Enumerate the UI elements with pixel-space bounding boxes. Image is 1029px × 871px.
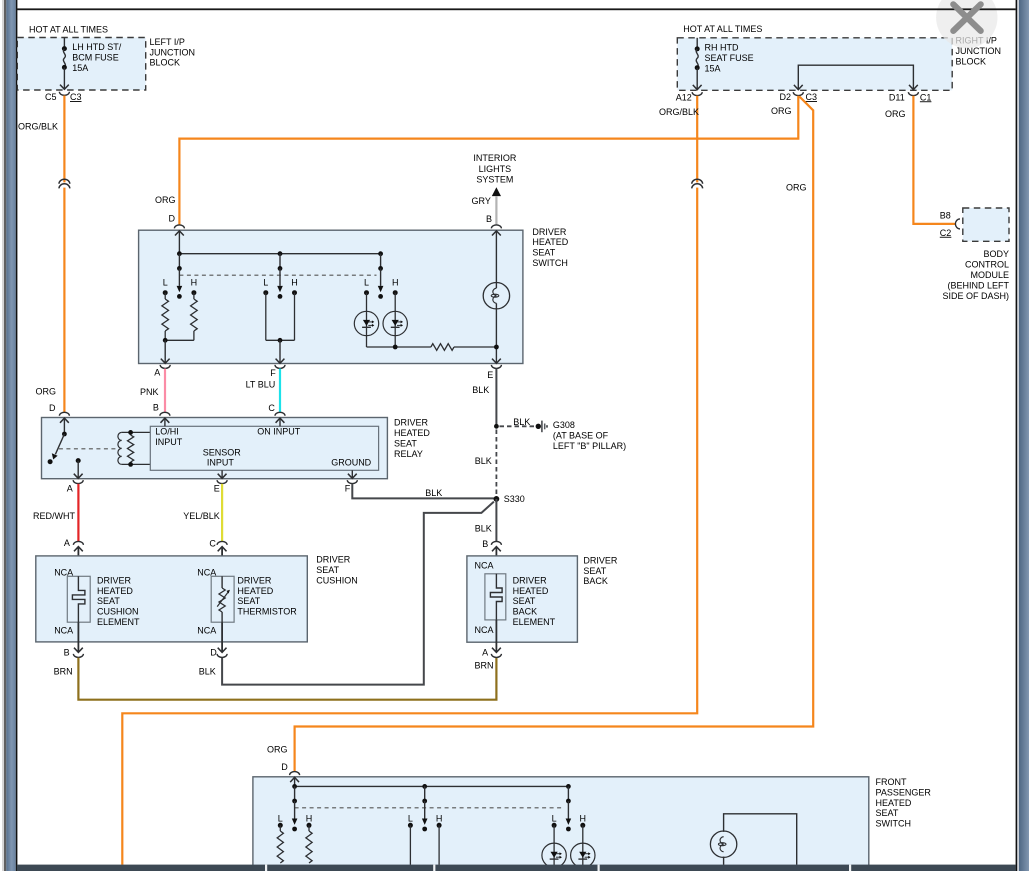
right window frame bar (1016, 0, 1029, 871)
relay switch contact arm (48, 418, 69, 464)
svg-text:ORG: ORG (155, 195, 176, 205)
wire LED outputs to resistor and lamp leg (367, 336, 431, 350)
LED L (passenger switch) (542, 843, 566, 867)
svg-text:C2: C2 (940, 228, 952, 238)
svg-text:B: B (153, 403, 159, 413)
wire ORG from C3 to front passenger switch D (267, 97, 813, 772)
driver switch section 2 (ON) (263, 268, 297, 363)
driver heated seat switch (box) (139, 230, 523, 363)
svg-text:FRONT: FRONT (876, 777, 907, 787)
svg-text:15A: 15A (72, 63, 88, 73)
fuse RH HTD SEAT FUSE 15A (693, 38, 754, 90)
connector B (seat cushion element) (64, 622, 84, 657)
connector B (seat back element) (482, 539, 501, 574)
svg-text:INPUT: INPUT (207, 458, 235, 468)
wire ORG/BLK from C5/C3 down to relay D (18, 96, 70, 413)
connector D (thermistor) (199, 622, 227, 676)
svg-text:ORG: ORG (771, 106, 792, 116)
svg-text:H: H (392, 278, 399, 288)
switch mechanical link (dashed) (179, 274, 376, 276)
connector A (seat back element) (482, 620, 501, 658)
svg-text:H: H (306, 813, 313, 823)
wire BLK S330 down to driver seat back B (475, 499, 497, 541)
svg-text:HEATED: HEATED (532, 237, 568, 247)
svg-text:D: D (49, 403, 56, 413)
svg-text:ORG: ORG (36, 386, 57, 396)
passenger switch section 2 (408, 801, 442, 865)
svg-text:HOT AT ALL TIMES: HOT AT ALL TIMES (29, 25, 108, 35)
svg-text:PNK: PNK (140, 387, 159, 397)
svg-text:H: H (580, 813, 587, 823)
ground G308 (536, 420, 627, 451)
svg-text:SEAT: SEAT (876, 808, 899, 818)
right I/P junction block (dashed box) (677, 38, 952, 91)
svg-text:ON INPUT: ON INPUT (257, 427, 301, 437)
relay coil with parallel resistor (118, 430, 150, 467)
svg-text:A: A (67, 484, 73, 494)
svg-text:G308: G308 (553, 420, 575, 430)
wire LT BLU driver switch F to relay C (246, 369, 280, 412)
svg-text:LT BLU: LT BLU (246, 380, 276, 390)
svg-text:LIGHTS: LIGHTS (479, 164, 512, 174)
svg-text:SEAT: SEAT (513, 596, 536, 606)
driver heated seat thermistor (211, 575, 297, 622)
svg-text:15A: 15A (705, 63, 721, 73)
wire ORG/BLK from A12 down-left to bottom (122, 96, 702, 865)
svg-text:H: H (191, 278, 198, 288)
svg-text:B: B (486, 214, 492, 224)
passenger switch section 1 (277, 801, 312, 863)
svg-text:BLOCK: BLOCK (150, 58, 181, 68)
svg-text:NCA: NCA (197, 625, 216, 635)
svg-text:H: H (436, 813, 443, 823)
svg-text:SIDE OF DASH): SIDE OF DASH) (942, 291, 1009, 301)
svg-text:HEATED: HEATED (97, 586, 133, 596)
wire YEL/BLK relay E to thermistor C (183, 484, 222, 541)
svg-text:BLK: BLK (475, 523, 492, 533)
svg-text:L: L (278, 813, 283, 823)
svg-text:L: L (364, 278, 369, 288)
svg-text:THERMISTOR: THERMISTOR (237, 607, 297, 617)
svg-text:NCA: NCA (54, 625, 73, 635)
svg-text:NCA: NCA (475, 625, 494, 635)
svg-text:SEAT: SEAT (237, 596, 260, 606)
svg-text:RELAY: RELAY (394, 449, 423, 459)
relay armature link (dashed) (59, 448, 118, 450)
driver heated seat relay (box) (42, 418, 388, 479)
svg-text:C: C (268, 403, 275, 413)
svg-text:DRIVER: DRIVER (583, 556, 618, 566)
relay sensor input E output (218, 470, 227, 478)
svg-text:L: L (408, 813, 413, 823)
wire ORG from D2 to driver switch D (155, 96, 798, 225)
resistor (driver switch) (431, 344, 454, 351)
wire BLK relay F to splice S330 (352, 484, 494, 499)
junction block internal bus D2-D11 (794, 65, 918, 89)
bottom window bar (17, 865, 1016, 871)
svg-text:ORG/BLK: ORG/BLK (659, 107, 699, 117)
wire BLK driver switch E down to G308/S330 (472, 369, 496, 427)
svg-text:ELEMENT: ELEMENT (513, 617, 556, 627)
svg-text:BLK: BLK (425, 488, 442, 498)
body control module (dashed box) (963, 208, 1009, 241)
svg-text:PASSENGER: PASSENGER (876, 787, 932, 797)
svg-text:B8: B8 (940, 211, 951, 221)
svg-text:HEATED: HEATED (394, 428, 430, 438)
svg-text:BRN: BRN (54, 667, 73, 677)
svg-text:SEAT: SEAT (316, 565, 339, 575)
wire BLK (dashed) to ground G308 (500, 417, 536, 427)
driver seat cushion (box) (36, 556, 308, 642)
svg-text:LO/HI: LO/HI (155, 427, 179, 437)
svg-text:C1: C1 (920, 92, 932, 102)
svg-text:F: F (270, 368, 276, 378)
svg-text:SEAT: SEAT (97, 596, 120, 606)
svg-text:A: A (154, 368, 160, 378)
driver switch internal feed bus (175, 231, 383, 271)
passenger switch mechanical link (dashed) (295, 807, 564, 809)
svg-text:B: B (482, 539, 488, 549)
svg-text:LEFT I/P: LEFT I/P (150, 37, 185, 47)
svg-text:D: D (210, 647, 217, 657)
wire GRY from driver switch B to interior lights (472, 196, 502, 229)
svg-text:SEAT: SEAT (532, 248, 555, 258)
svg-text:INPUT: INPUT (155, 437, 183, 447)
wire BRN cushion B to seat back A (54, 658, 497, 700)
svg-text:H: H (291, 278, 298, 288)
svg-text:E: E (214, 484, 220, 494)
svg-text:BLK: BLK (199, 667, 216, 677)
svg-text:A: A (482, 647, 488, 657)
svg-text:DRIVER: DRIVER (394, 418, 429, 428)
svg-text:SEAT FUSE: SEAT FUSE (705, 53, 754, 63)
lamp (driver switch indicator) (483, 283, 509, 309)
svg-text:D: D (281, 762, 288, 772)
svg-text:S330: S330 (504, 494, 525, 504)
svg-text:BLK: BLK (513, 417, 530, 427)
driver seat back (box) (467, 556, 578, 642)
svg-text:HEATED: HEATED (513, 586, 549, 596)
svg-text:DRIVER: DRIVER (532, 227, 567, 237)
svg-text:DRIVER: DRIVER (97, 575, 132, 585)
left I/P junction block (dashed box) (17, 38, 145, 91)
svg-text:ELEMENT: ELEMENT (97, 617, 140, 627)
svg-text:F: F (345, 484, 351, 494)
svg-text:BRN: BRN (475, 660, 494, 670)
svg-text:BACK: BACK (583, 576, 608, 586)
svg-text:L: L (552, 813, 557, 823)
passenger switch internal feed bus (290, 777, 571, 803)
svg-text:DRIVER: DRIVER (513, 575, 548, 585)
svg-text:C5: C5 (45, 92, 57, 102)
svg-text:DRIVER: DRIVER (316, 555, 351, 565)
svg-text:BACK: BACK (513, 607, 538, 617)
svg-text:C3: C3 (70, 92, 82, 102)
svg-text:A: A (64, 538, 70, 548)
close button (X) (936, 0, 997, 48)
svg-text:SEAT: SEAT (583, 566, 606, 576)
svg-text:ORG: ORG (786, 182, 807, 192)
wire BLK (dashed) down to S330 (475, 430, 497, 496)
svg-text:BLK: BLK (472, 385, 489, 395)
wire BLK thermistor D to S330 (222, 502, 494, 685)
svg-text:(AT BASE OF: (AT BASE OF (553, 430, 609, 440)
svg-text:SEAT: SEAT (394, 439, 417, 449)
svg-text:CUSHION: CUSHION (316, 575, 358, 585)
svg-text:HEATED: HEATED (876, 798, 912, 808)
fuse LH HTD ST/BCM FUSE 15A (60, 38, 122, 90)
svg-text:E: E (487, 370, 493, 380)
svg-text:L: L (263, 278, 268, 288)
relay inner module box (150, 426, 378, 470)
svg-text:DRIVER: DRIVER (237, 575, 272, 585)
svg-text:NCA: NCA (475, 560, 494, 570)
svg-text:(BEHIND LEFT: (BEHIND LEFT (947, 280, 1009, 290)
svg-text:MODULE: MODULE (970, 270, 1009, 280)
driver heated seat cushion element (67, 575, 140, 627)
svg-text:BCM FUSE: BCM FUSE (72, 53, 119, 63)
svg-text:SENSOR: SENSOR (203, 447, 242, 457)
LED L (driver switch) (354, 311, 378, 335)
lamp (passenger switch indicator) (710, 831, 736, 857)
svg-text:YEL/BLK: YEL/BLK (183, 511, 220, 521)
svg-text:SYSTEM: SYSTEM (476, 175, 513, 185)
svg-text:BODY: BODY (983, 249, 1009, 259)
svg-text:D2: D2 (780, 92, 792, 102)
svg-text:D: D (169, 214, 176, 224)
svg-text:GRY: GRY (472, 196, 491, 206)
svg-text:L: L (163, 278, 168, 288)
svg-text:D11: D11 (889, 92, 905, 102)
passenger indicator lamp leg (724, 814, 797, 865)
svg-text:BLOCK: BLOCK (956, 56, 987, 66)
node at driver switch E / G308 branch (494, 424, 499, 429)
svg-text:INTERIOR: INTERIOR (473, 153, 517, 163)
svg-text:ORG: ORG (885, 109, 906, 119)
node INTERIOR LIGHTS SYSTEM (473, 153, 517, 196)
svg-text:C: C (209, 538, 216, 548)
svg-text:SWITCH: SWITCH (532, 258, 568, 268)
front passenger heated seat switch (box) (253, 777, 869, 869)
svg-text:HEATED: HEATED (237, 586, 273, 596)
svg-text:RH HTD: RH HTD (705, 43, 739, 53)
splice S330 (494, 496, 500, 502)
indicator lamp leg B-E (492, 231, 501, 363)
svg-text:B: B (64, 647, 70, 657)
svg-text:BLK: BLK (475, 456, 492, 466)
svg-text:SWITCH: SWITCH (876, 819, 912, 829)
connector A (seat cushion element) (64, 538, 84, 576)
svg-text:ORG/BLK: ORG/BLK (18, 121, 58, 131)
LED H (driver switch) (383, 311, 407, 335)
svg-text:C3: C3 (806, 92, 818, 102)
relay contact A output (74, 458, 83, 478)
connector C (thermistor) (209, 538, 227, 576)
driver heated seat back element (485, 574, 556, 627)
left window frame bar (2, 0, 17, 871)
svg-text:A12: A12 (676, 92, 692, 102)
top border line (17, 8, 1016, 10)
svg-text:RED/WHT: RED/WHT (33, 511, 75, 521)
LED H (passenger switch) (571, 843, 595, 867)
svg-text:CONTROL: CONTROL (965, 259, 1009, 269)
svg-text:ORG: ORG (267, 744, 288, 754)
svg-text:JUNCTION: JUNCTION (150, 47, 196, 57)
svg-text:CUSHION: CUSHION (97, 607, 139, 617)
svg-text:LEFT "B" PILLAR): LEFT "B" PILLAR) (553, 441, 626, 451)
svg-text:LH HTD ST/: LH HTD ST/ (72, 42, 122, 52)
passenger switch section 3 (LEDs) (552, 801, 586, 843)
svg-text:GROUND: GROUND (331, 458, 371, 468)
wire RED/WHT relay A to seat cushion element A (33, 484, 78, 541)
driver switch section 1 (LO/HI select) (161, 268, 197, 363)
svg-text:HOT AT ALL TIMES: HOT AT ALL TIMES (683, 24, 762, 34)
wire ORG from C1 to body control module B8/C2 (885, 96, 955, 224)
relay ground F output (348, 470, 357, 478)
driver switch section 3 (indicator LEDs) (364, 268, 398, 311)
wire PNK driver switch A to relay B (140, 369, 165, 412)
